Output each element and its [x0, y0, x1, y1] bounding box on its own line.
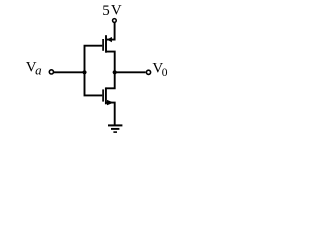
transistor Q1 (PMOS) gate bar [102, 39, 104, 51]
wire: input terminal to gate rail [54, 71, 85, 73]
label V0 [152, 61, 167, 80]
power terminal (5 V open circle) [113, 19, 117, 23]
label 5 V (supply voltage) [102, 3, 122, 20]
input terminal Va (open circle) [49, 70, 53, 74]
label Va [26, 60, 42, 78]
wire: Q2 source to ground [106, 103, 114, 126]
wire: output node to output terminal [115, 71, 146, 73]
wire: gate rail connecting Q1 and Q2 gates [85, 46, 103, 96]
ground [108, 125, 122, 132]
node: output junction dot [113, 70, 117, 74]
transistor Q1 (PMOS) channel bar [105, 35, 107, 53]
transistor Q2 (NMOS) source arrow [107, 100, 114, 105]
node: input junction dot [82, 70, 86, 74]
transistor Q1 (PMOS) source arrow [107, 37, 112, 42]
output terminal V0 (open circle) [146, 70, 150, 74]
wire: Q1 drain to Q2 drain (output rail) [106, 52, 114, 89]
svg-text:0: 0 [162, 67, 168, 79]
wire: supply terminal to PMOS source [106, 23, 114, 40]
svg-text:a: a [35, 62, 42, 77]
transistor Q2 (NMOS) gate bar [102, 89, 104, 101]
svg-text:V: V [111, 3, 122, 19]
transistor Q2 (NMOS) channel bar [105, 87, 107, 104]
svg-text:5: 5 [102, 3, 110, 19]
